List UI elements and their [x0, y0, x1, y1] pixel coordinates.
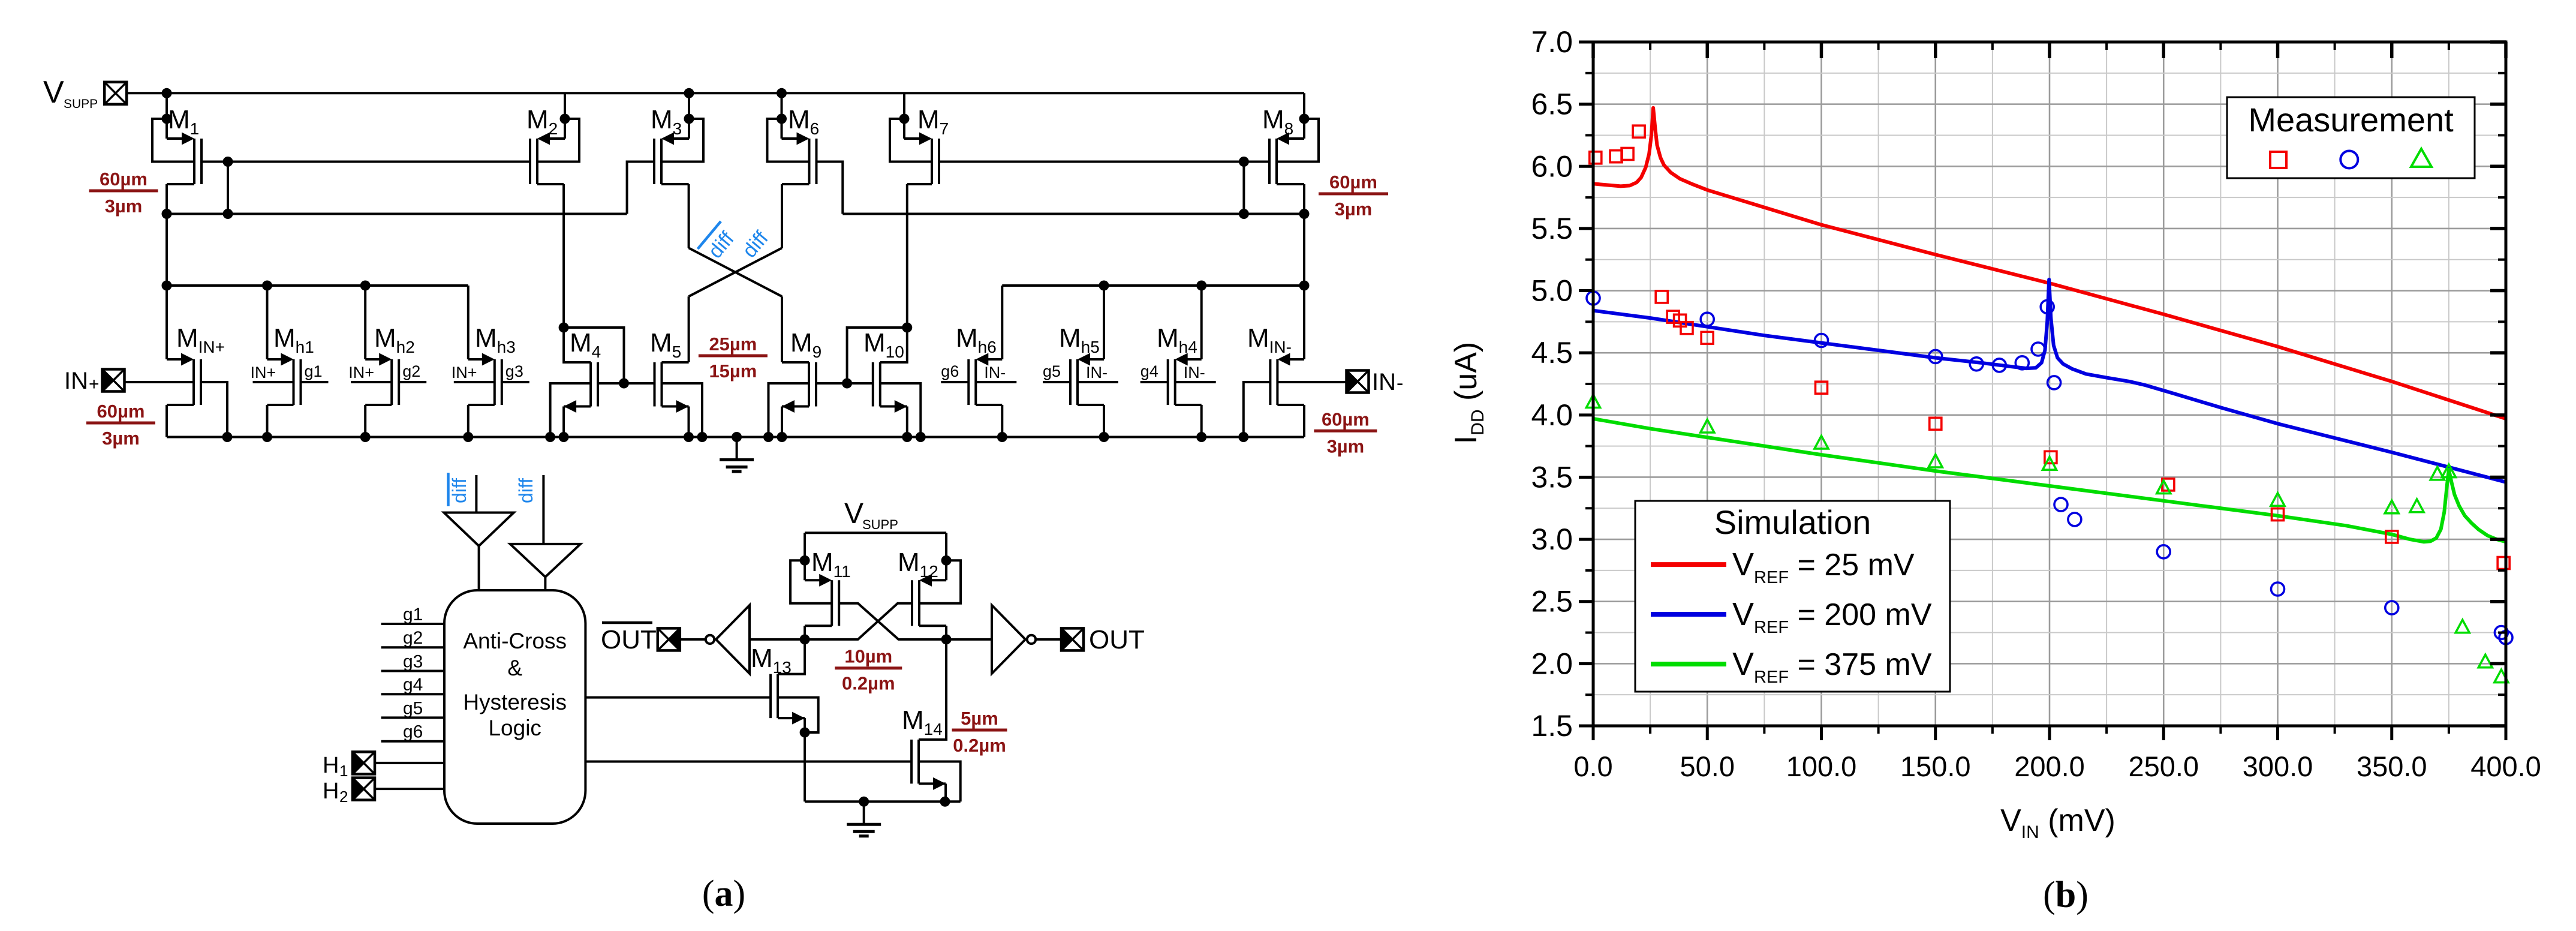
net stub g3 [502, 381, 529, 383]
svg-text:3µm: 3µm [1327, 436, 1365, 457]
svg-text:Measurement: Measurement [2248, 101, 2454, 139]
node Mh5 drain on bus [1099, 432, 1109, 442]
ground symbol lower [847, 801, 881, 836]
label 5um/0.2um [952, 708, 1007, 756]
svg-text:3µm: 3µm [105, 196, 143, 217]
wire MIN- drain to bus [1277, 404, 1304, 406]
wire Mh4 (PMOS hysteresis) drain to bus [1175, 404, 1202, 406]
wire M14 drain from node [919, 639, 946, 740]
node OUTbar internal [800, 634, 810, 644]
node Mh1 drain on bus [262, 432, 272, 442]
node gate bus tap [223, 157, 233, 167]
wire M12 source [945, 533, 947, 580]
transistor M6 (PMOS) [782, 133, 817, 185]
svg-text:V: V [43, 75, 64, 110]
net stub g2 input [381, 646, 444, 648]
svg-text:60µm: 60µm [1322, 409, 1370, 430]
node tail M1-MIN+ [162, 281, 172, 291]
wire M13 bulk loop [778, 698, 818, 732]
svg-text:g6: g6 [941, 362, 959, 380]
svg-text:Logic: Logic [488, 716, 541, 740]
node M8 bulk tap [1299, 114, 1310, 124]
svg-text:150.0: 150.0 [1900, 750, 1971, 782]
label OUTbar [601, 623, 657, 654]
svg-text:5.0: 5.0 [1531, 274, 1573, 308]
svg-text:3.0: 3.0 [1531, 522, 1573, 556]
curve VREF=200mV (blue) [1593, 280, 2506, 482]
pad H1 [353, 752, 375, 774]
node M9-M10 gate tap [842, 379, 852, 389]
svg-text:60µm: 60µm [1329, 172, 1377, 193]
node M1 drain on mirror bus [162, 209, 172, 219]
wire M10 bulk to bus [880, 383, 921, 437]
svg-text:25µm: 25µm [709, 334, 757, 355]
wire M8 diode connection [1242, 162, 1245, 214]
net label diff-bar [698, 221, 742, 266]
wire inverter U2 to pad [1036, 638, 1061, 641]
ground symbol main [720, 437, 754, 472]
svg-text:IN: IN [1372, 369, 1396, 395]
VSUPP label [43, 75, 98, 111]
svg-text:350.0: 350.0 [2357, 750, 2427, 782]
svg-text:250.0: 250.0 [2128, 750, 2199, 782]
wire M3 source from rail [688, 93, 690, 139]
node M6 bulk tap [777, 114, 787, 124]
wire buffer A2 output [544, 577, 546, 590]
svg-text:60µm: 60µm [97, 401, 145, 422]
transistor M3 (PMOS) [654, 133, 689, 185]
node tail M8-MIN- [1299, 281, 1310, 291]
wire bottom rail [805, 800, 961, 803]
svg-text:IN+: IN+ [251, 364, 276, 382]
wire gate bus M7-M8 [939, 161, 1269, 163]
node M9 bulk on bus [763, 432, 774, 442]
svg-text:10µm: 10µm [844, 646, 892, 667]
svg-text:(a): (a) [702, 873, 745, 914]
node M13 source-bulk [800, 728, 810, 738]
transistor Mh6 (PMOS hysteresis) [968, 353, 1002, 406]
svg-text:3.5: 3.5 [1531, 460, 1573, 494]
svg-text:Anti-Cross: Anti-Cross [463, 629, 567, 653]
wire M3 drain to crossing [661, 183, 689, 185]
svg-text:300.0: 300.0 [2243, 750, 2313, 782]
legend Measurement [2227, 97, 2475, 178]
wire M1 bulk loop [152, 119, 194, 162]
svg-text:+: + [89, 374, 100, 394]
wire M8 drain down to tail bus [1277, 183, 1304, 185]
wire M14 gate from block [585, 761, 911, 763]
net stub IN- at Mh4 (PMOS hysteresis) [1175, 381, 1216, 383]
svg-text:3µm: 3µm [102, 428, 140, 449]
wire H1 to block [375, 762, 444, 764]
wire M10 drain from M7 [880, 328, 907, 362]
transistor MIN+ (PMOS input 60um/3um) [167, 353, 201, 406]
pad IN+ [103, 370, 125, 392]
wire M11 bulk loop [790, 560, 832, 603]
svg-text:g4: g4 [403, 675, 423, 695]
wire MIN- bulk to bus [1244, 382, 1271, 437]
chart frame [1579, 42, 2506, 740]
wire Mh5 (PMOS hysteresis) source [1103, 286, 1105, 359]
net stub g4 input [381, 693, 444, 695]
node M10 drain [902, 323, 912, 333]
node M3 rail junction [684, 88, 694, 98]
svg-text:4.0: 4.0 [1531, 398, 1573, 432]
node M5 bulk on bus [697, 432, 708, 442]
label diff-bar vertical [449, 473, 471, 506]
wire M10 diode loop [847, 328, 907, 383]
wire M13 source down [804, 718, 806, 732]
net stub g5 [1043, 381, 1070, 383]
svg-text:IN+: IN+ [348, 364, 374, 382]
inverter U2 (OUT) [992, 605, 1036, 674]
net stub g5 input [381, 716, 444, 719]
svg-text:g2: g2 [402, 362, 420, 380]
net stub IN- at Mh6 (PMOS hysteresis) [976, 381, 1016, 383]
svg-text:2.5: 2.5 [1531, 585, 1573, 618]
net label diff [738, 227, 773, 262]
wire OUT node to inverter [946, 638, 992, 641]
scatter green triangles [1587, 395, 2508, 683]
label IN- [1372, 369, 1403, 395]
node ground tap [732, 432, 742, 442]
wire VSUPP rail [127, 92, 1304, 94]
x axis title VIN (mV) [2000, 803, 2115, 842]
transistor Mh4 (PMOS hysteresis) [1168, 353, 1202, 406]
inverter U1 (OUTbar) [706, 605, 750, 674]
svg-text:diff: diff [449, 478, 470, 503]
svg-text:IN-: IN- [1086, 364, 1108, 382]
svg-text:g4: g4 [1140, 362, 1158, 380]
wire M1 diode connection [227, 162, 229, 214]
node M9 source on bus [777, 432, 787, 442]
node M4 drain [559, 323, 569, 333]
buffer A1 (diff-bar) [444, 513, 513, 546]
label 60um/3um MIN+ [86, 401, 155, 449]
wire gate line M9-M10 [816, 382, 873, 385]
svg-text:4.5: 4.5 [1531, 336, 1573, 370]
wire Mh6 (PMOS hysteresis) source [1001, 286, 1003, 359]
wire M4 diode loop [564, 328, 624, 383]
wire M2 drain down to M4 [537, 183, 564, 185]
net stub IN- at Mh5 (PMOS hysteresis) [1078, 381, 1118, 383]
svg-text:0.2µm: 0.2µm [842, 673, 895, 694]
node M10 source on bus [902, 432, 912, 442]
svg-text:6.5: 6.5 [1531, 88, 1573, 121]
wire Mh5 (PMOS hysteresis) drain to bus [1078, 404, 1104, 406]
node M3 bulk tap [684, 114, 694, 124]
svg-text:(b): (b) [2043, 875, 2089, 915]
wire M13 gate from block [585, 696, 771, 699]
svg-text:-: - [1397, 372, 1403, 395]
wire mirror bus left [167, 213, 627, 215]
svg-text:&: & [507, 656, 522, 680]
wire OUTbar node to inverter [750, 638, 805, 641]
label 60um/3um M8 [1319, 172, 1388, 220]
svg-text:g6: g6 [403, 722, 423, 742]
x axis tick labels [1573, 750, 2541, 782]
pad VSUPP [104, 82, 127, 104]
svg-text:3µm: 3µm [1335, 199, 1373, 220]
wire Mh2 (PMOS hysteresis) source [364, 286, 366, 359]
svg-text:g3: g3 [403, 652, 423, 672]
node M4 bulk on bus [545, 432, 555, 442]
svg-text:g2: g2 [403, 628, 423, 648]
transistor M12 (PMOS latch) [912, 574, 946, 626]
wire M4 drain from M2 [564, 328, 591, 362]
wire MIN+ drain to bus [167, 404, 194, 406]
svg-text:IN: IN [64, 368, 88, 394]
node M7 bulk tap [899, 114, 910, 124]
svg-text:6.0: 6.0 [1531, 149, 1573, 183]
svg-text:7.0: 7.0 [1531, 25, 1573, 59]
svg-text:IN+: IN+ [452, 364, 477, 382]
svg-text:SUPP: SUPP [862, 517, 898, 532]
buffer A2 (diff) [510, 544, 580, 577]
svg-text:Simulation: Simulation [1714, 503, 1871, 541]
wire gate line M4-M5 [598, 382, 654, 385]
wire M13 to bottom rail [804, 732, 806, 801]
node M14 source on rail [940, 797, 950, 807]
node M8 mirror bus tap [1239, 209, 1249, 219]
wire Mh3 (PMOS hysteresis) source [467, 286, 470, 359]
legend Simulation [1635, 501, 1950, 692]
node M8 gate tap [1239, 157, 1249, 167]
wire Mh1 (PMOS hysteresis) source [266, 286, 269, 359]
wire M6 source from rail [781, 93, 783, 139]
chart gridlines [1593, 42, 2506, 726]
label 10um/0.2um [835, 646, 902, 694]
transistor M13 (NMOS 10um/0.2um) [771, 674, 805, 725]
net stub IN+ at Mh2 (PMOS hysteresis) [351, 381, 392, 383]
wire MIN- gate to pad [1277, 381, 1346, 383]
label 25um/15um [699, 334, 768, 382]
wire M8 source from rail [1303, 93, 1305, 139]
net stub g6 input [381, 740, 444, 743]
node M12 bulk tap [941, 555, 952, 566]
svg-text:g1: g1 [305, 362, 323, 380]
transistor M8 (PMOS 60um/3um) [1269, 133, 1304, 185]
svg-text:0.2µm: 0.2µm [953, 735, 1006, 756]
svg-text:OUT: OUT [601, 625, 657, 654]
wire M14 source down [944, 783, 947, 801]
node Mh2 drain on bus [360, 432, 371, 442]
svg-text:g3: g3 [505, 362, 523, 380]
svg-text:200.0: 200.0 [2014, 750, 2085, 782]
wire left tail bus [167, 284, 468, 287]
wire M11 source [804, 533, 806, 580]
transistor M11 (PMOS latch) [805, 574, 839, 626]
y axis tick labels [1531, 25, 1573, 743]
node tail Mh2 [360, 281, 371, 291]
label IN+ [64, 368, 100, 394]
wire M5 source to bus [688, 407, 690, 437]
pad IN- [1347, 371, 1369, 393]
svg-text:g5: g5 [403, 698, 423, 718]
wire M1 source from rail [165, 93, 168, 139]
svg-text:H: H [323, 753, 339, 778]
node M8 drain on mirror bus [1299, 209, 1310, 219]
svg-text:2: 2 [339, 788, 348, 806]
wire M11 gate cross-couple [839, 603, 946, 639]
svg-text:50.0: 50.0 [1680, 750, 1735, 782]
wire M8 bulk loop [1277, 119, 1319, 162]
pad OUTbar [658, 628, 680, 650]
wire buffer A1 output [478, 546, 480, 590]
label 60um/3um M1 [89, 169, 158, 217]
wire ground bus [167, 436, 1304, 439]
svg-text:100.0: 100.0 [1786, 750, 1857, 782]
node M10 bulk on bus [916, 432, 926, 442]
wire H2 to block [375, 788, 444, 790]
wire M2 bulk loop [537, 119, 579, 162]
wire M9 bulk to bus [769, 383, 809, 437]
svg-text:IN-: IN- [1184, 364, 1205, 382]
net stub diff-bar to buffer [475, 475, 477, 513]
svg-text:g5: g5 [1043, 362, 1061, 380]
node lower ground tap [859, 797, 869, 807]
wire M9 drain from crossing [782, 361, 809, 364]
wire M12 gate cross-couple [805, 603, 912, 639]
wire M5 bulk to bus [662, 383, 703, 437]
svg-text:2.0: 2.0 [1531, 647, 1573, 680]
scatter blue circles [1587, 292, 2512, 644]
node Mh3 drain on bus [463, 432, 473, 442]
node M2 bulk tap [560, 114, 570, 124]
wire M7 bulk loop [890, 119, 932, 162]
transistor M1 (PMOS 60um/3um) [167, 133, 201, 185]
wire inverter U1 to pad [680, 638, 706, 641]
wire Mh1 (PMOS hysteresis) drain to bus [267, 404, 294, 406]
label H2 [323, 779, 348, 806]
node tail Mh5 [1099, 281, 1109, 291]
wire Mh3 (PMOS hysteresis) drain to bus [468, 404, 495, 406]
label 60um/3um MIN- [1314, 409, 1377, 457]
node M6 rail junction [777, 88, 787, 98]
node M11 bulk tap [800, 555, 810, 566]
node OUT internal [941, 634, 952, 644]
net stub g2 [399, 381, 426, 383]
wire M1 drain down to tail bus [165, 184, 168, 359]
svg-text:VIN (mV): VIN (mV) [2000, 803, 2115, 842]
net stub g1 input [381, 623, 444, 625]
transistor M9 (NMOS) [782, 362, 816, 413]
node M4-M5 gate tap [619, 379, 629, 389]
svg-text:g1: g1 [403, 605, 423, 624]
svg-text:15µm: 15µm [709, 361, 757, 382]
curve VREF=25mV (red) [1593, 108, 2506, 419]
wire MIN+ bulk to bus [201, 382, 227, 437]
wire M6 bulk loop [768, 119, 809, 162]
net stub g3 input [381, 670, 444, 672]
wire Mh6 (PMOS hysteresis) drain to bus [976, 404, 1002, 406]
transistor M5 (NMOS 25um/15um) [655, 362, 689, 413]
node mirror bus tap [223, 209, 233, 219]
wire M14 bulk to rail [919, 762, 961, 802]
wire M12 drain to node [919, 624, 946, 627]
wire M6 drain to crossing [782, 183, 809, 185]
wire M12 bulk loop [919, 560, 961, 603]
wire M13 drain from node [778, 639, 805, 674]
transistor Mh5 (PMOS hysteresis) [1070, 353, 1104, 406]
wire M2 source from rail [564, 93, 566, 139]
node Mh4 drain on bus [1196, 432, 1206, 442]
wire Mh4 (PMOS hysteresis) source [1200, 286, 1203, 359]
svg-text:OUT: OUT [1089, 625, 1145, 654]
svg-text:1: 1 [339, 762, 348, 780]
wire MIN+ source [165, 286, 168, 359]
wire lower VSUPP rail [805, 531, 946, 534]
wire M5 drain from crossing [662, 361, 689, 364]
wire gate bus M1-M2 [201, 161, 530, 163]
node tail Mh4 [1196, 281, 1206, 291]
transistor Mh2 (PMOS hysteresis) [365, 353, 399, 406]
pad H2 [353, 778, 375, 800]
transistor Mh3 (PMOS hysteresis) [468, 353, 502, 406]
node MIN+ bulk on bus [222, 432, 233, 442]
wire M4 bulk to bus [550, 383, 591, 437]
scatter red squares [1590, 125, 2509, 569]
net stub g4 [1140, 381, 1168, 383]
svg-text:V: V [844, 498, 863, 530]
node MIN- bulk on bus [1238, 432, 1248, 442]
y axis title IDD (uA) [1449, 342, 1488, 444]
transistor Mh1 (PMOS hysteresis) [267, 353, 301, 406]
wire Mh2 (PMOS hysteresis) drain to bus [365, 404, 392, 406]
svg-text:400.0: 400.0 [2470, 750, 2541, 782]
wire right tail bus [1002, 284, 1304, 287]
node M5 source on bus [684, 432, 694, 442]
wire MIN- source [1303, 286, 1305, 359]
wire M7 drain down to M10 [907, 183, 932, 185]
node M1 gate-bulk tap [162, 114, 172, 124]
wire mirror bus right [842, 213, 1304, 215]
wire M6 gate drop [817, 162, 843, 214]
node M4 source on bus [559, 432, 569, 442]
node M1 rail junction [162, 88, 172, 98]
transistor MIN- (PMOS input 60um/3um) [1270, 353, 1304, 406]
node tail Mh1 [262, 281, 272, 291]
svg-text:Hysteresis: Hysteresis [463, 690, 567, 714]
net stub g6 [941, 381, 968, 383]
transistor M7 (PMOS) [904, 133, 939, 185]
wire M7 source from rail [903, 93, 905, 139]
svg-text:5µm: 5µm [961, 708, 998, 729]
svg-text:5.5: 5.5 [1531, 212, 1573, 245]
svg-text:60µm: 60µm [100, 169, 148, 190]
wire M10 source to bus [906, 407, 908, 437]
transistor M4 (NMOS) [564, 362, 598, 413]
transistor M2 (PMOS mirror) [530, 133, 565, 185]
label VSUPP lower [844, 498, 898, 532]
curve VREF=375mV (green) [1593, 419, 2506, 542]
wire M4 source to bus [562, 407, 565, 437]
svg-text:IN-: IN- [984, 364, 1006, 382]
wire M3 gate drop [627, 162, 654, 214]
wire MIN+ gate to pad [125, 381, 194, 383]
net stub IN+ at Mh3 (PMOS hysteresis) [454, 381, 495, 383]
svg-text:diff: diff [515, 478, 537, 503]
svg-text:SUPP: SUPP [64, 97, 98, 111]
transistor M14 (NMOS 5um/0.2um) [911, 740, 946, 790]
svg-text:H: H [323, 779, 339, 804]
wire diff crossing [689, 248, 782, 362]
wire M3 bulk loop [661, 119, 703, 162]
wire M9 source to bus [781, 407, 783, 437]
net stub g1 [301, 381, 329, 383]
wire M11 drain to node [805, 624, 832, 627]
logic block Anti-Cross & Hysteresis [444, 590, 585, 824]
